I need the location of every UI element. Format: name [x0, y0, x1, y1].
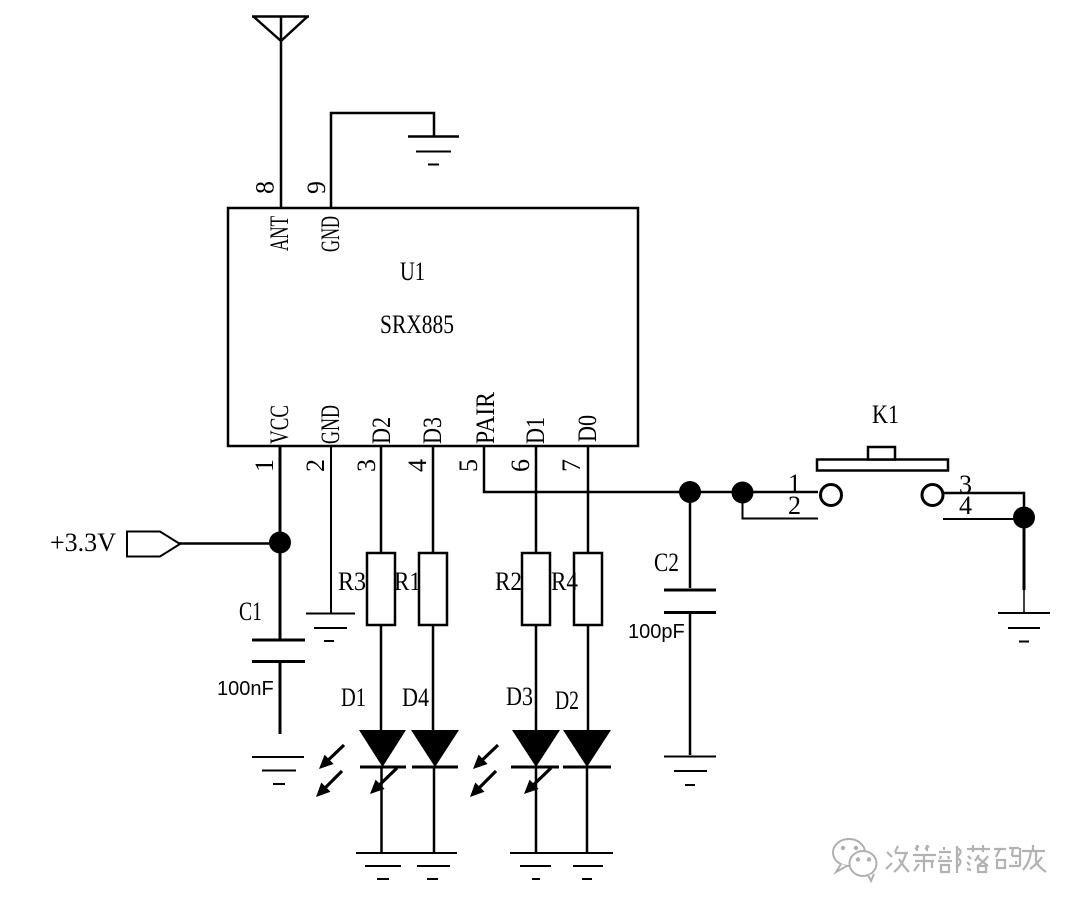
LED D3 arrows: [470, 745, 498, 797]
antenna ANT1: [252, 17, 309, 209]
svg-text:R4: R4: [551, 567, 578, 596]
ground top (pin 9): [408, 137, 459, 165]
wire pin2 GND: [330, 446, 332, 613]
svg-text:1: 1: [250, 459, 279, 472]
ground D1 D4: [356, 853, 457, 879]
wire pin3: [380, 446, 383, 553]
wire pin5 PAIR to switch: [484, 446, 818, 492]
junction node K1 right: [1013, 507, 1035, 529]
svg-text:7: 7: [557, 459, 586, 472]
svg-text:100pF: 100pF: [628, 621, 685, 643]
svg-text:8: 8: [251, 181, 280, 194]
switch K1 button bump: [868, 447, 895, 460]
svg-text:U1: U1: [400, 257, 425, 286]
wire pin9 to ground: [331, 113, 434, 208]
svg-text:9: 9: [302, 181, 331, 194]
char 码: [994, 848, 1020, 868]
LED D2 arrow visible: [524, 768, 551, 794]
wire K1 pin3 to right: [944, 493, 1024, 517]
svg-text:D0: D0: [573, 415, 602, 442]
op-chip U1 SRX885 body: [228, 208, 638, 446]
svg-text:GND: GND: [316, 405, 345, 444]
junction node C2: [679, 481, 701, 503]
LED D1 arrows: [316, 745, 344, 797]
svg-text:R3: R3: [338, 567, 366, 596]
svg-text:R1: R1: [394, 567, 421, 596]
capacitor C1: [252, 640, 305, 734]
ground D3 D2: [510, 853, 613, 879]
svg-text:+3.3V: +3.3V: [50, 528, 116, 557]
svg-text:K1: K1: [872, 400, 899, 429]
svg-text:R2: R2: [495, 567, 522, 596]
LED D1: [341, 683, 406, 853]
resistor R2: [522, 553, 550, 625]
junction node VCC: [269, 532, 291, 554]
ground C1: [252, 757, 304, 784]
wire K1 to ground: [1023, 526, 1026, 590]
char 农: [1022, 845, 1046, 872]
svg-text:SRX885: SRX885: [380, 310, 454, 339]
wire R2 to D3: [535, 625, 538, 730]
ground C2: [664, 757, 716, 786]
wire pin1 VCC vertical: [279, 446, 282, 640]
ground K1: [998, 613, 1050, 642]
switch K1 button bar: [817, 460, 948, 471]
char 落: [967, 845, 990, 872]
svg-text:D1: D1: [521, 417, 550, 444]
svg-text:PAIR: PAIR: [471, 391, 500, 444]
svg-text:D2: D2: [555, 686, 579, 715]
svg-text:VCC: VCC: [265, 405, 294, 444]
svg-text:D3: D3: [418, 417, 447, 444]
svg-text:D2: D2: [367, 417, 396, 444]
LED D2: [555, 686, 611, 853]
LED D4: [402, 683, 459, 853]
svg-text:4: 4: [959, 491, 972, 520]
svg-text:GND: GND: [316, 216, 345, 252]
svg-text:D1: D1: [341, 683, 366, 712]
char 部: [938, 846, 961, 873]
resistor R1: [419, 553, 447, 625]
svg-text:2: 2: [788, 491, 801, 520]
svg-text:100nF: 100nF: [217, 678, 274, 700]
wire K1 pin2 stub: [743, 500, 819, 519]
svg-text:3: 3: [352, 459, 381, 472]
power flag +3.3V: [175, 542, 272, 545]
resistor R4: [574, 553, 602, 625]
svg-text:6: 6: [506, 459, 535, 472]
resistor R3: [367, 553, 395, 625]
char 第: [913, 845, 936, 872]
svg-text:5: 5: [454, 459, 483, 472]
watermark text strokes: [886, 845, 1046, 873]
wire R4 to D2: [587, 625, 590, 730]
LED D4 arrow visible: [370, 768, 397, 794]
svg-text:C1: C1: [239, 597, 262, 626]
wire pin4: [432, 446, 435, 553]
char 次: [886, 846, 909, 872]
switch K1 contact 1: [821, 485, 842, 506]
svg-text:D3: D3: [506, 682, 533, 711]
svg-text:D4: D4: [402, 683, 429, 712]
wire R1 to D4: [432, 625, 435, 730]
watermark icon: [833, 839, 877, 881]
svg-text:ANT: ANT: [265, 216, 294, 251]
ground pin2: [306, 614, 355, 642]
switch K1 contact 3: [922, 485, 943, 506]
svg-text:C2: C2: [654, 548, 679, 577]
LED D3: [506, 682, 560, 853]
svg-text:2: 2: [301, 459, 330, 472]
wire pin6: [535, 446, 538, 553]
wire pin7: [587, 446, 590, 553]
wire R3 to D1: [380, 625, 383, 730]
wire K1 pin4 stub: [943, 518, 1015, 520]
svg-text:4: 4: [403, 459, 432, 472]
junction node K1 left: [732, 482, 754, 504]
capacitor C2: [689, 502, 692, 588]
